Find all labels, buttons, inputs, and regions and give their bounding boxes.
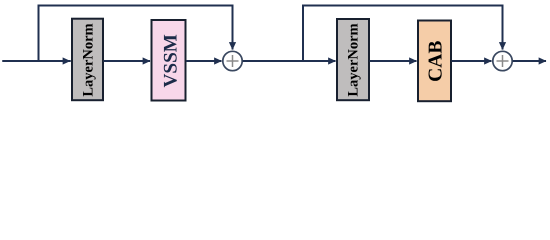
wire: VSSM to adder 1 xyxy=(186,60,222,62)
adder 1 (circle with plus) xyxy=(223,51,242,70)
wire: LayerNorm1 to VSSM xyxy=(104,60,151,62)
wire: CAB to adder 2 xyxy=(452,60,492,62)
wire: skip connection 1 from branch junction at (38.5,61) up, across, down into adder 1 xyxy=(39,6,233,62)
block: VSSM xyxy=(152,20,186,101)
block: CAB xyxy=(418,21,451,102)
svg-text:VSSM: VSSM xyxy=(161,34,182,87)
block: LayerNorm 1 xyxy=(72,19,103,101)
svg-text:LayerNorm: LayerNorm xyxy=(81,23,97,96)
wire: skip connection 2 from branch junction at (303,61) up, across, down into adder 2 xyxy=(303,6,503,62)
svg-text:LayerNorm: LayerNorm xyxy=(346,23,362,96)
svg-text:CAB: CAB xyxy=(426,41,447,82)
wire: output arrow xyxy=(513,60,546,62)
wire: LayerNorm2 to CAB xyxy=(370,60,417,62)
adder 2 (circle with plus) xyxy=(493,51,512,70)
block: LayerNorm 2 xyxy=(337,19,369,100)
wire: input arrow into LayerNorm1 xyxy=(3,60,70,62)
wire: adder 1 to LayerNorm 2 xyxy=(243,60,336,62)
